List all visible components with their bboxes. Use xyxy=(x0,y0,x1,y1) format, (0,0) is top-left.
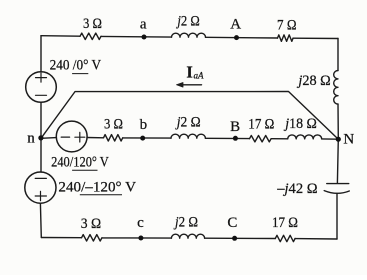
svg-text:j2 Ω: j2 Ω xyxy=(175,114,201,130)
svg-text:j2 Ω: j2 Ω xyxy=(176,14,200,30)
svg-text:j2 Ω: j2 Ω xyxy=(173,215,198,231)
svg-text:n: n xyxy=(27,131,35,147)
svg-text:c: c xyxy=(137,215,144,231)
svg-text:N: N xyxy=(343,131,354,147)
svg-text:b: b xyxy=(140,117,148,133)
svg-text:aA: aA xyxy=(194,71,205,81)
svg-text:j28 Ω: j28 Ω xyxy=(296,73,330,89)
svg-text:C: C xyxy=(227,215,237,231)
svg-text:I: I xyxy=(186,63,192,82)
svg-text:3 Ω: 3 Ω xyxy=(104,117,123,133)
svg-text:–j42 Ω: –j42 Ω xyxy=(276,181,317,197)
svg-text:17 Ω: 17 Ω xyxy=(248,116,274,132)
svg-text:240/–120° V: 240/–120° V xyxy=(58,179,136,195)
svg-text:3 Ω: 3 Ω xyxy=(83,16,102,32)
svg-text:B: B xyxy=(230,119,240,135)
svg-text:240 /0° V: 240 /0° V xyxy=(50,58,102,74)
svg-text:3 Ω: 3 Ω xyxy=(81,216,101,232)
svg-text:17 Ω: 17 Ω xyxy=(272,215,298,231)
svg-text:7 Ω: 7 Ω xyxy=(277,18,297,34)
svg-text:240/120° V: 240/120° V xyxy=(51,155,109,171)
svg-text:A: A xyxy=(230,17,241,33)
svg-text:j18 Ω: j18 Ω xyxy=(283,116,316,132)
svg-text:a: a xyxy=(140,17,147,33)
